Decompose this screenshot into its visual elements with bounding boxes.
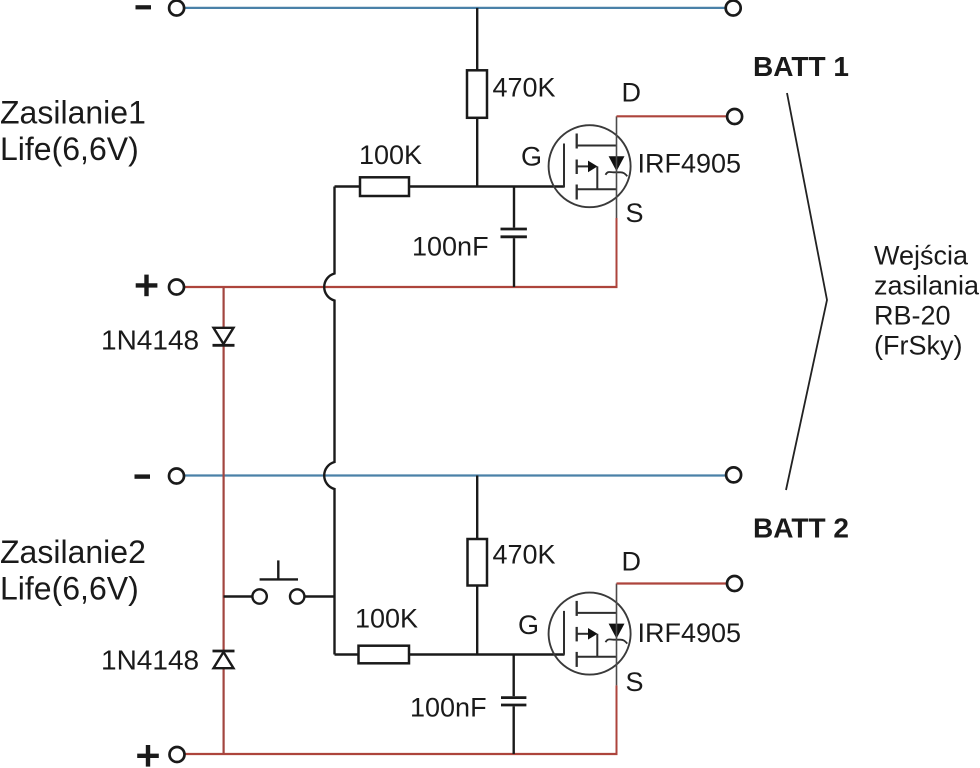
- svg-text:S: S: [626, 198, 644, 228]
- terminal bottom plus: [170, 747, 185, 762]
- wire drain-source vertical (top mosfet): [616, 116, 618, 218]
- svg-text:100K: 100K: [359, 140, 422, 170]
- wire blue middle rail: [184, 474, 726, 476]
- svg-text:IRF4905: IRF4905: [638, 618, 742, 648]
- label Zasilanie1: [0, 95, 146, 131]
- svg-text:BATT 1: BATT 1: [753, 51, 849, 82]
- wire blue top rail: [184, 7, 726, 9]
- label BATT 2: [753, 513, 849, 544]
- svg-text:BATT 2: BATT 2: [753, 513, 849, 544]
- label 470K top: [493, 72, 556, 102]
- wire drain-source vertical (bottom mosfet): [616, 584, 618, 686]
- svg-text:RB-20: RB-20: [874, 301, 951, 331]
- wire red vertical battery link: [223, 287, 225, 754]
- svg-text:1N4148: 1N4148: [101, 645, 199, 676]
- terminal mid-right minus: [726, 467, 741, 482]
- svg-text:(FrSky): (FrSky): [874, 331, 962, 361]
- diode D2 1N4148: [213, 651, 235, 668]
- svg-text:IRF4905: IRF4905: [638, 149, 742, 179]
- svg-text:S: S: [626, 667, 644, 697]
- terminal top plus: [169, 280, 184, 295]
- svg-text:470K: 470K: [493, 539, 556, 569]
- svg-text:G: G: [521, 142, 542, 172]
- svg-text:Life(6,6V): Life(6,6V): [0, 571, 139, 607]
- wire red top plus rail: [184, 286, 618, 288]
- label D pin top: [622, 78, 642, 108]
- wire 470K branch top: [476, 8, 478, 187]
- label 1N4148 bottom: [101, 645, 199, 676]
- wire red source 1: [616, 218, 618, 287]
- svg-text:Wejścia: Wejścia: [874, 241, 969, 271]
- svg-text:Zasilanie2: Zasilanie2: [0, 534, 146, 570]
- resistor 470K (top): [467, 70, 487, 118]
- polarity mark plus (top battery): [136, 275, 158, 297]
- svg-text:G: G: [518, 610, 539, 640]
- diode D1 1N4148: [213, 328, 235, 346]
- svg-text:100nF: 100nF: [412, 232, 489, 262]
- label 100K bottom: [355, 604, 418, 634]
- capacitor 100nF (top): [501, 187, 527, 288]
- svg-text:470K: 470K: [493, 72, 556, 102]
- terminal BATT2 D output: [727, 576, 742, 591]
- svg-text:Zasilanie1: Zasilanie1: [0, 95, 146, 131]
- label G pin bottom: [518, 610, 539, 640]
- resistor 100K (top): [360, 177, 409, 196]
- label Life(6,6V) top: [0, 131, 139, 167]
- label BATT 1: [753, 51, 849, 82]
- resistor 100K (bottom): [359, 646, 410, 664]
- capacitor 100nF (bottom): [501, 655, 526, 755]
- label 1N4148 top: [101, 325, 199, 356]
- terminal mid-left minus: [169, 469, 184, 484]
- label 100nF top: [412, 232, 489, 262]
- push button switch: [224, 560, 335, 603]
- polarity mark plus (bottom battery): [137, 745, 159, 767]
- wire red drain 2 (BATT2 output): [617, 582, 728, 584]
- wire node row 1 (gate network top): [335, 185, 565, 187]
- wire 470K branch bottom: [476, 476, 478, 655]
- label D pin bottom: [622, 547, 642, 577]
- bracket to RB-20 inputs: [786, 93, 827, 490]
- polarity mark minus (top): [136, 5, 152, 9]
- label 100nF bottom: [410, 693, 487, 723]
- svg-text:D: D: [622, 78, 642, 108]
- resistor 470K (bottom): [468, 539, 488, 586]
- svg-text:Life(6,6V): Life(6,6V): [0, 131, 139, 167]
- wire red bottom plus rail: [184, 753, 618, 755]
- svg-text:1N4148: 1N4148: [101, 325, 199, 356]
- label S pin bottom: [626, 667, 644, 697]
- label Zasilanie2: [0, 534, 146, 570]
- svg-text:100nF: 100nF: [410, 693, 487, 723]
- svg-text:zasilania: zasilania: [874, 271, 980, 301]
- terminal BATT1 D output: [727, 109, 742, 124]
- svg-text:D: D: [622, 547, 642, 577]
- wire black gate branch vertical with hops: [324, 187, 334, 655]
- label Life(6,6V) bottom: [0, 571, 139, 607]
- label S pin top: [626, 198, 644, 228]
- terminal top-right minus: [726, 1, 741, 16]
- label 100K top: [359, 140, 422, 170]
- label Wejscia zasilania RB-20 (FrSky): [874, 241, 980, 361]
- label IRF4905 top: [638, 149, 742, 179]
- label G pin top: [521, 142, 542, 172]
- terminal top-left minus: [169, 1, 184, 16]
- wire node row 2 (gate network bottom): [335, 653, 565, 655]
- label IRF4905 bottom: [638, 618, 742, 648]
- transistor Q1 IRF4905 (top): [549, 125, 631, 207]
- transistor Q2 IRF4905 (bottom): [549, 593, 631, 675]
- polarity mark minus (middle): [135, 474, 151, 478]
- svg-text:100K: 100K: [355, 604, 418, 634]
- wire red source 2: [616, 685, 618, 754]
- label 470K bottom: [493, 539, 556, 569]
- wire red drain 1 (BATT1 output): [617, 115, 728, 117]
